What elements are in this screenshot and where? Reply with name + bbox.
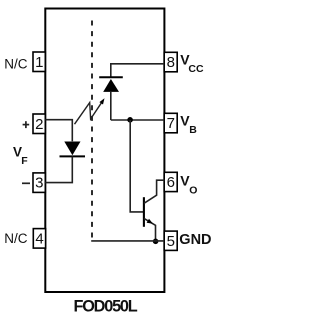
isolation barrier dashed line [91, 21, 93, 241]
svg-text:B: B [189, 124, 197, 136]
label VB [180, 112, 197, 136]
svg-text:N/C: N/C [4, 231, 28, 246]
label VCC [180, 52, 204, 76]
svg-text:CC: CC [188, 63, 204, 75]
svg-text:8: 8 [167, 54, 175, 71]
svg-text:4: 4 [35, 230, 43, 247]
wire pin2 to LED anode [45, 120, 72, 142]
svg-text:3: 3 [35, 175, 43, 192]
transistor Q1 emitter wire [144, 218, 156, 241]
wire LED cathode to pin3 [45, 156, 72, 182]
svg-text:GND: GND [179, 232, 211, 248]
LED input diode triangle [64, 142, 80, 156]
svg-text:FOD050L: FOD050L [73, 298, 137, 316]
label VF [13, 145, 28, 167]
pin 3 box [33, 173, 45, 193]
svg-text:1: 1 [35, 54, 43, 71]
junction dot base node [127, 117, 133, 123]
svg-text:7: 7 [167, 115, 175, 132]
svg-text:2: 2 [35, 116, 43, 133]
transistor Q1 base bar [143, 197, 145, 227]
transistor Q1 emitter arrowhead [147, 219, 153, 224]
pin 4 box [33, 229, 45, 249]
svg-text:F: F [21, 155, 28, 167]
pin 7 box [164, 113, 177, 133]
pin 1 box [33, 52, 45, 72]
pin 8 box [164, 52, 177, 72]
pin 2 box [33, 114, 45, 134]
svg-text:6: 6 [167, 174, 175, 191]
wire base node down to transistor base [130, 120, 143, 212]
photodiode cathode bar [99, 76, 123, 78]
wire base node to pin7 [111, 119, 164, 121]
junction dot emitter GND node [153, 239, 159, 245]
GND wire to pin5 [91, 240, 164, 242]
pin 2 polarity label + [23, 121, 30, 128]
photodiode triangle [103, 79, 119, 92]
svg-text:5: 5 [167, 233, 175, 250]
label VO [180, 172, 197, 196]
LED cathode bar [60, 155, 86, 157]
svg-text:N/C: N/C [4, 56, 28, 71]
pin 5 box [164, 231, 177, 250]
svg-text:O: O [189, 185, 197, 197]
wire photodiode cathode to pin8 [111, 64, 164, 78]
pin 3 polarity label - [22, 182, 30, 184]
package body outline FOD050L [45, 9, 164, 293]
light coupling zigzag arrow [75, 98, 105, 124]
wire photodiode anode down [110, 92, 112, 120]
transistor Q1 collector wire to pin6 [144, 180, 164, 203]
pin 6 box [164, 172, 177, 191]
